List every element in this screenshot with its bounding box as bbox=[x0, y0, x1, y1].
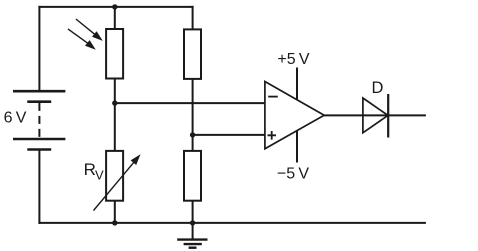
wire RV top lead bbox=[114, 103, 116, 151]
wire right branch top lead bbox=[192, 6, 194, 30]
wire LDR top lead bbox=[114, 6, 116, 29]
node bottom ground bbox=[190, 220, 195, 225]
op-amp comparator bbox=[265, 82, 324, 149]
resistor upper right bbox=[184, 29, 201, 79]
wire LDR bottom lead bbox=[114, 79, 116, 105]
resistor lower right bbox=[184, 151, 201, 201]
wire non-inverting input (node to op-amp) bbox=[193, 134, 265, 136]
svg-text:D: D bbox=[372, 79, 384, 97]
resistor LDR (photoresistor) bbox=[106, 29, 123, 79]
ground bbox=[177, 240, 207, 248]
op-amp minus marker bbox=[268, 96, 278, 98]
wire +5V supply lead bbox=[296, 68, 298, 101]
battery 6V bbox=[13, 91, 65, 149]
wire ground stub bbox=[192, 223, 194, 240]
light arrow 2 bbox=[68, 29, 96, 50]
node inverting divider bbox=[112, 100, 117, 105]
wire -5V supply lead bbox=[296, 131, 298, 163]
node non-inverting divider bbox=[190, 132, 195, 137]
svg-text:6 V: 6 V bbox=[4, 109, 27, 126]
wire top rail bbox=[38, 6, 193, 8]
op-amp plus marker bbox=[268, 131, 277, 140]
wire op-amp output through diode bbox=[324, 114, 426, 116]
wire battery top lead bbox=[38, 6, 40, 91]
node junction top left bbox=[112, 4, 117, 9]
node bottom left branch bbox=[112, 220, 117, 225]
svg-text:V: V bbox=[95, 168, 104, 183]
wire inverting input (node to op-amp) bbox=[115, 102, 265, 104]
wire right branch bottom lead bbox=[192, 201, 194, 224]
svg-text:−5 V: −5 V bbox=[277, 166, 309, 183]
light arrow 1 bbox=[76, 19, 103, 41]
resistor RV (variable) bbox=[94, 151, 141, 211]
wire RV bottom lead bbox=[114, 201, 116, 224]
diode D bbox=[363, 94, 388, 138]
wire right branch middle (crossover, no junction) bbox=[192, 79, 194, 151]
wire battery bottom lead bbox=[38, 150, 40, 224]
wire bottom rail bbox=[38, 222, 426, 224]
svg-text:+5 V: +5 V bbox=[277, 51, 309, 68]
